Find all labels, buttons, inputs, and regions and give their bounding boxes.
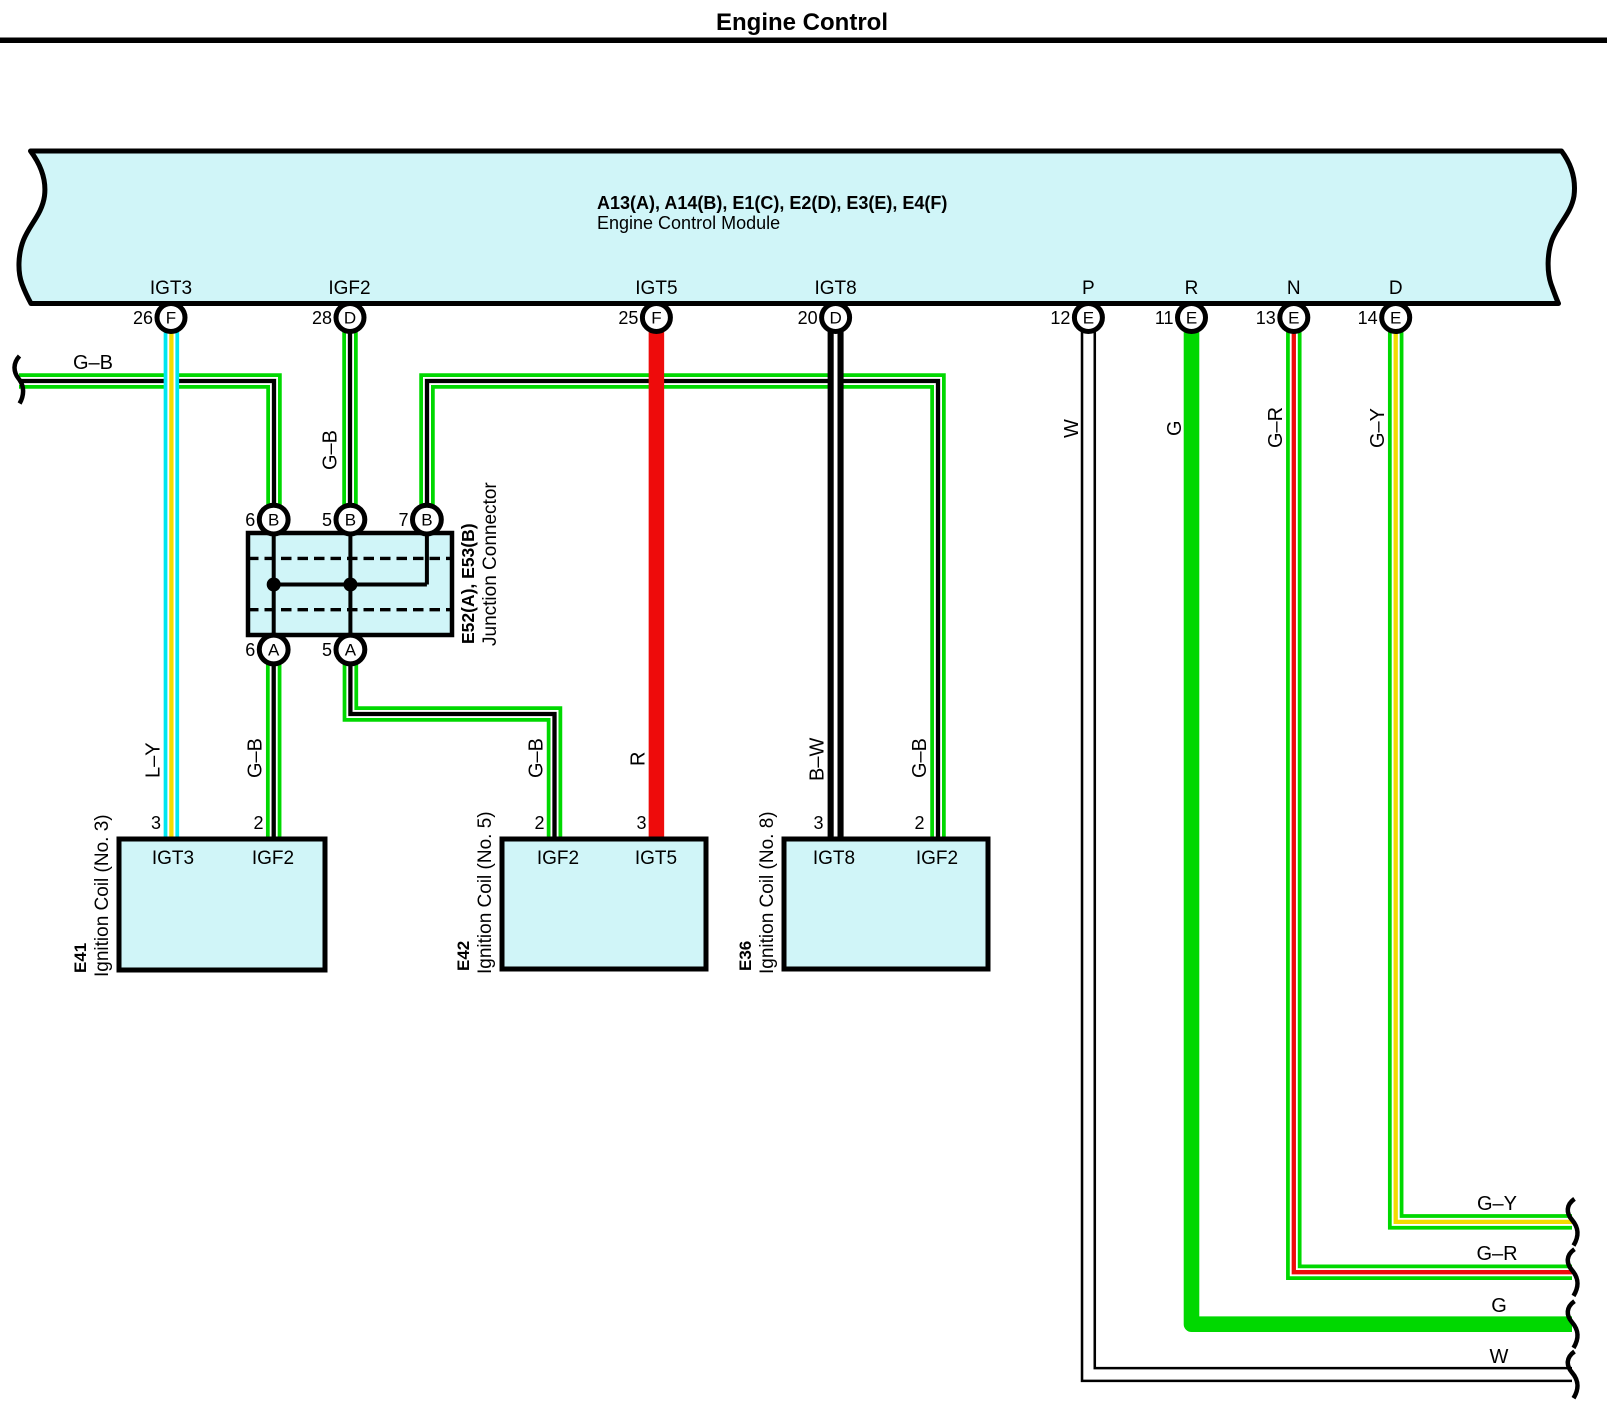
svg-text:B: B <box>345 511 356 530</box>
svg-text:14: 14 <box>1358 308 1378 328</box>
svg-text:IGT5: IGT5 <box>635 848 677 869</box>
svg-text:E41: E41 <box>71 943 90 973</box>
junction pin 6 A <box>245 635 288 664</box>
svg-text:W: W <box>1061 419 1083 438</box>
svg-text:E: E <box>1186 309 1197 328</box>
svg-text:IGF2: IGF2 <box>252 848 294 869</box>
ECM pin 13 E (N) <box>1256 278 1308 332</box>
torn end left <box>15 356 24 404</box>
ECM pin 11 E (R) <box>1155 278 1206 332</box>
svg-text:6: 6 <box>245 510 255 530</box>
torn end G-Y <box>1568 1199 1578 1246</box>
wire G-B from junction 7B up and right to E36 pin 2 <box>427 381 938 839</box>
svg-text:IGF2: IGF2 <box>916 848 958 869</box>
svg-text:IGT8: IGT8 <box>814 278 856 299</box>
ECM pin 26 F (IGT3) <box>133 278 192 332</box>
ECM module A13/A14/E1-E4 body <box>19 151 1575 304</box>
junction connector E52/E53 body <box>248 533 452 635</box>
svg-text:E: E <box>1390 309 1401 328</box>
svg-text:W: W <box>1490 1346 1509 1368</box>
ECM pin 25 F (IGT5) <box>618 278 677 332</box>
wire G-B from junction 6A to E41 pin 2 <box>266 663 282 839</box>
wire B-W from ECM IGT8 20D to E36 pin 3 <box>828 331 844 839</box>
ECM pin 12 E (P) <box>1050 278 1102 332</box>
junction pin 7 B <box>398 505 441 534</box>
svg-text:5: 5 <box>322 510 332 530</box>
svg-text:P: P <box>1082 278 1095 299</box>
svg-text:IGT5: IGT5 <box>635 278 677 299</box>
svg-text:28: 28 <box>312 308 332 328</box>
svg-text:D: D <box>1389 278 1403 299</box>
svg-text:6: 6 <box>245 640 255 660</box>
svg-text:G: G <box>1491 1295 1507 1317</box>
svg-text:G–B: G–B <box>245 738 267 778</box>
svg-text:D: D <box>344 309 356 328</box>
svg-text:G–R: G–R <box>1265 407 1287 448</box>
svg-text:G–Y: G–Y <box>1477 1193 1517 1215</box>
svg-text:G–R: G–R <box>1476 1243 1517 1265</box>
ECM pin 14 E (D) <box>1358 278 1410 332</box>
svg-text:7: 7 <box>398 510 408 530</box>
wire G-B horizontal from left edge to junction 6B <box>19 381 274 506</box>
junction node dot A <box>267 578 281 592</box>
ECM pin 28 D (IGF2) <box>312 278 371 332</box>
svg-text:A: A <box>345 641 357 660</box>
svg-text:L–Y: L–Y <box>142 742 164 778</box>
svg-text:R: R <box>627 752 649 766</box>
svg-text:2: 2 <box>253 813 263 833</box>
ECM label text <box>597 193 947 233</box>
wire G-Y from ECM D 14E to bottom right <box>1396 331 1572 1222</box>
svg-text:B–W: B–W <box>807 738 829 781</box>
ECM pin 20 D (IGT8) <box>798 278 857 332</box>
E42 label <box>454 811 496 974</box>
svg-text:IGT8: IGT8 <box>813 848 855 869</box>
svg-text:G–B: G–B <box>909 738 931 778</box>
svg-text:F: F <box>651 309 661 328</box>
svg-text:IGT3: IGT3 <box>150 278 192 299</box>
svg-text:Ignition Coil (No. 8): Ignition Coil (No. 8) <box>757 811 778 974</box>
svg-text:N: N <box>1287 278 1301 299</box>
svg-text:B: B <box>268 511 279 530</box>
svg-text:12: 12 <box>1050 308 1070 328</box>
svg-text:E52(A), E53(B): E52(A), E53(B) <box>458 523 478 644</box>
svg-text:3: 3 <box>151 813 161 833</box>
wire W from ECM P 12E to bottom right <box>1088 331 1572 1375</box>
torn end W <box>1568 1352 1578 1399</box>
svg-text:IGF2: IGF2 <box>537 848 579 869</box>
junction pin 5 B <box>322 505 365 534</box>
svg-text:2: 2 <box>534 813 544 833</box>
svg-text:A: A <box>268 641 280 660</box>
junction pin 5 A <box>322 635 365 664</box>
svg-text:R: R <box>1185 278 1199 299</box>
svg-text:3: 3 <box>636 813 646 833</box>
svg-text:Ignition Coil (No. 5): Ignition Coil (No. 5) <box>475 811 496 974</box>
svg-text:E: E <box>1288 309 1299 328</box>
junction internal bus wires <box>274 533 427 635</box>
svg-text:E: E <box>1083 309 1094 328</box>
ignition coil E41 body <box>119 839 325 970</box>
svg-text:E36: E36 <box>736 941 755 971</box>
svg-text:Engine Control: Engine Control <box>716 9 888 36</box>
svg-text:B: B <box>421 511 432 530</box>
svg-text:A13(A), A14(B), E1(C), E2(D),: A13(A), A14(B), E1(C), E2(D), E3(E), E4(… <box>597 193 947 213</box>
ignition coil E42 body <box>502 839 706 969</box>
svg-text:G–B: G–B <box>526 738 548 778</box>
svg-text:3: 3 <box>813 813 823 833</box>
title rule <box>0 38 1607 44</box>
wire G-B from junction 5A to E42 pin 2 <box>350 663 554 839</box>
svg-text:25: 25 <box>618 308 638 328</box>
svg-text:13: 13 <box>1256 308 1276 328</box>
E41 label <box>71 814 113 977</box>
svg-text:IGT3: IGT3 <box>152 848 194 869</box>
svg-text:IGF2: IGF2 <box>328 278 370 299</box>
svg-text:Junction Connector: Junction Connector <box>480 482 501 646</box>
svg-text:Ignition Coil (No. 3): Ignition Coil (No. 3) <box>92 814 113 977</box>
svg-text:26: 26 <box>133 308 153 328</box>
wire R from ECM IGT5 25F to E42 pin 3 <box>649 331 665 839</box>
junction node dot B <box>343 578 357 592</box>
svg-text:G–B: G–B <box>320 430 342 470</box>
svg-text:2: 2 <box>914 813 924 833</box>
svg-text:Engine Control Module: Engine Control Module <box>597 213 780 233</box>
wire G-B from ECM IGF2 28D to junction 5B <box>342 331 358 506</box>
svg-text:D: D <box>829 309 841 328</box>
wire G from ECM R 11E to bottom right <box>1192 331 1573 1324</box>
ignition coil E36 body <box>784 839 988 969</box>
torn end G <box>1568 1301 1578 1348</box>
svg-text:20: 20 <box>798 308 818 328</box>
title Engine Control <box>716 9 888 36</box>
torn end G-R <box>1568 1249 1578 1296</box>
junction pin 6 B <box>245 505 288 534</box>
wire G-R from ECM N 13E to bottom right <box>1294 331 1572 1272</box>
svg-text:5: 5 <box>322 640 332 660</box>
svg-text:E42: E42 <box>454 941 473 971</box>
wire L-Y from ECM IGT3 26F to E41 pin 3 <box>164 331 180 839</box>
svg-text:G–Y: G–Y <box>1367 408 1389 448</box>
E36 label <box>736 811 778 974</box>
svg-text:F: F <box>166 309 176 328</box>
svg-text:G–B: G–B <box>73 352 113 374</box>
svg-text:G: G <box>1164 420 1186 436</box>
svg-text:11: 11 <box>1155 308 1174 328</box>
